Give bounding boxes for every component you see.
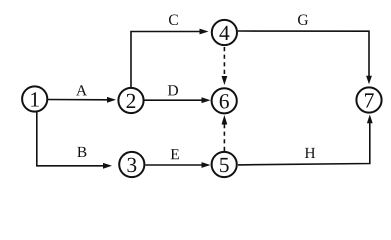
label H: [305, 148, 315, 158]
label E: [171, 149, 179, 159]
wire H: node5 right then up to node7: [238, 115, 373, 165]
node 4: [212, 20, 237, 45]
node 3: [119, 152, 144, 177]
wire D: node2 to node6: [145, 97, 211, 103]
node 1: [22, 86, 47, 111]
node 2: [118, 88, 143, 113]
wire G: node4 right then down to node7: [238, 31, 372, 84]
node 5: [212, 152, 237, 177]
label D: [168, 85, 178, 95]
wire E: node3 to node5: [146, 162, 211, 168]
dummy arrow node4 to node6 (dashed): [222, 47, 228, 85]
label C: [169, 15, 178, 26]
dummy arrow node5 to node6 (dashed): [222, 115, 228, 151]
wire A: node1 to node2: [47, 97, 116, 103]
label A: [76, 85, 87, 95]
wire C: node2 up then right to node4: [131, 29, 209, 88]
node 7: [356, 87, 381, 112]
node 6: [212, 88, 237, 113]
label G: [298, 15, 308, 26]
label B: [77, 147, 86, 157]
wire B: node1 down then right to node3: [37, 112, 112, 169]
